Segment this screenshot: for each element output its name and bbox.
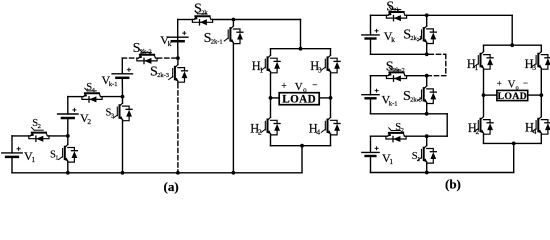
- svg-text:2k-2: 2k-2: [393, 67, 405, 74]
- svg-text:LOAD: LOAD: [498, 91, 528, 102]
- svg-text:−: −: [523, 78, 528, 88]
- svg-text:1: 1: [417, 156, 420, 163]
- svg-text:2k: 2k: [201, 9, 208, 16]
- svg-text:2k-1: 2k-1: [211, 38, 223, 45]
- svg-text:(a): (a): [164, 179, 179, 194]
- svg-text:2k-2: 2k-2: [140, 49, 152, 56]
- svg-text:1: 1: [31, 155, 35, 164]
- svg-text:2: 2: [476, 127, 480, 136]
- svg-text:2k-3: 2k-3: [157, 72, 169, 79]
- svg-text:3: 3: [532, 63, 536, 72]
- svg-text:2: 2: [87, 117, 91, 126]
- svg-text:2k-1: 2k-1: [410, 35, 422, 42]
- svg-text:2k: 2k: [393, 7, 400, 14]
- svg-text:2: 2: [401, 127, 404, 134]
- svg-text:4: 4: [533, 127, 537, 136]
- svg-text:k: k: [391, 35, 395, 44]
- svg-text:(b): (b): [445, 176, 461, 191]
- svg-text:1: 1: [55, 155, 58, 162]
- svg-text:−: −: [312, 81, 317, 91]
- svg-text:k-1: k-1: [389, 101, 398, 108]
- svg-text:3: 3: [318, 65, 322, 74]
- svg-text:LOAD: LOAD: [282, 94, 316, 106]
- svg-text:1: 1: [389, 157, 393, 166]
- svg-text:2: 2: [258, 128, 262, 137]
- svg-text:o: o: [516, 85, 519, 92]
- svg-text:4: 4: [316, 128, 320, 137]
- svg-text:V: V: [295, 81, 303, 93]
- svg-text:+: +: [497, 79, 502, 89]
- svg-text:1: 1: [259, 65, 263, 74]
- svg-text:2: 2: [38, 123, 41, 130]
- svg-text:1: 1: [475, 63, 479, 72]
- svg-text:2k-3: 2k-3: [410, 96, 422, 103]
- svg-text:k-1: k-1: [109, 81, 118, 88]
- svg-text:k: k: [168, 39, 172, 48]
- svg-text:+: +: [281, 81, 287, 92]
- svg-text:o: o: [303, 86, 307, 94]
